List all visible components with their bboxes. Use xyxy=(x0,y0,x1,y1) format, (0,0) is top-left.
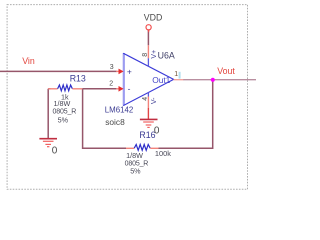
svg-text:R16: R16 xyxy=(139,130,155,140)
value 5% (R13) xyxy=(58,116,69,125)
svg-text:1: 1 xyxy=(174,71,178,78)
ground net label 0 (op-amp) xyxy=(154,125,160,136)
wire pin2 net (R13 to inverting input) xyxy=(82,88,116,90)
svg-text:5%: 5% xyxy=(130,166,141,175)
pin 2 (inverting input) with arrowhead xyxy=(116,86,123,92)
page border xyxy=(7,5,247,190)
svg-text:Vin: Vin xyxy=(22,56,35,66)
refdes U6A xyxy=(158,50,175,60)
wire output net (pin1 to right edge) xyxy=(183,79,256,81)
value 5% (R16) xyxy=(130,166,141,175)
net label VDD xyxy=(144,12,163,22)
ground symbol below op-amp xyxy=(140,119,158,127)
wire R13 left drop to ground xyxy=(48,89,50,138)
pin number 8 (rotated) xyxy=(142,53,149,57)
svg-text:5%: 5% xyxy=(58,116,69,125)
wire VDD drop to op-amp V+ pin xyxy=(147,30,149,45)
pin number 1 xyxy=(174,71,178,78)
svg-text:V-: V- xyxy=(151,97,158,104)
op-amp U6A body xyxy=(123,53,173,106)
value 1k xyxy=(61,92,69,101)
svg-text:Out1: Out1 xyxy=(152,75,170,85)
svg-text:U6A: U6A xyxy=(158,50,175,60)
node Vin label xyxy=(22,56,35,66)
svg-text:+: + xyxy=(127,66,132,76)
value 0805_R (R13) xyxy=(53,108,77,115)
ground net label 0 (R13) xyxy=(52,146,58,157)
power symbol VDD xyxy=(146,25,151,33)
svg-text:1/8W: 1/8W xyxy=(54,99,71,108)
value 100k xyxy=(155,149,171,158)
ground symbol below R13 xyxy=(39,139,57,147)
svg-text:Vout: Vout xyxy=(217,66,235,76)
node Vout label xyxy=(217,66,235,76)
wire R16 right to Vout node xyxy=(159,80,213,148)
svg-text:0: 0 xyxy=(52,146,58,157)
resistor R16 xyxy=(126,145,159,151)
svg-text:VDD: VDD xyxy=(144,12,163,22)
pin number 4 (rotated) xyxy=(142,97,149,101)
pin name V- (rotated) xyxy=(151,97,158,104)
value LM6142 xyxy=(105,106,134,115)
svg-text:R13: R13 xyxy=(70,74,86,84)
pin name Out1 xyxy=(152,75,170,85)
svg-text:8: 8 xyxy=(142,53,149,57)
pin name V+ (rotated) xyxy=(151,50,158,59)
value 1/8W (R16) xyxy=(126,151,143,160)
resistor R13 xyxy=(48,85,82,91)
pin 1 (output lead) xyxy=(174,79,184,81)
svg-text:V+: V+ xyxy=(151,50,158,59)
pin 3 (non-inverting input) with arrowhead xyxy=(116,69,123,75)
svg-text:1/8W: 1/8W xyxy=(126,151,143,160)
pin number 2 xyxy=(109,80,113,87)
pin number 3 xyxy=(110,64,114,71)
svg-text:-: - xyxy=(128,84,131,94)
svg-text:0805_R: 0805_R xyxy=(53,108,77,115)
svg-text:2: 2 xyxy=(109,80,113,87)
wire Vin net xyxy=(0,70,117,72)
pin 4 (V- power pin) xyxy=(147,92,149,119)
node junction dot at Vout xyxy=(211,78,215,82)
value 0805_R (R16) xyxy=(125,161,149,168)
value 1/8W (R13) xyxy=(54,99,71,108)
refdes R16 xyxy=(139,130,155,140)
svg-text:soic8: soic8 xyxy=(105,117,125,127)
label soic8 xyxy=(105,117,125,127)
svg-text:LM6142: LM6142 xyxy=(105,106,134,115)
svg-text:4: 4 xyxy=(142,97,149,101)
wire feedback from pin2 node down and right to R16 xyxy=(83,89,126,149)
svg-text:100k: 100k xyxy=(155,149,171,158)
marker cyan tick at pin 1 xyxy=(179,72,181,79)
pin 8 (V+ power pin) xyxy=(147,45,149,66)
refdes R13 xyxy=(70,74,86,84)
svg-text:3: 3 xyxy=(110,64,114,71)
